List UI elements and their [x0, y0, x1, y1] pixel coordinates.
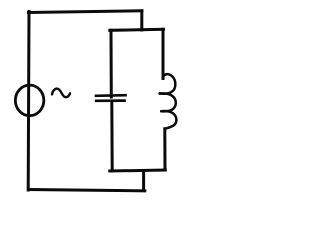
- wire: outer left vertical: [27, 12, 31, 191]
- wire: inductor top lead: [162, 29, 165, 78]
- inductor L1: [160, 74, 177, 129]
- wire: inner loop bottom horizontal: [110, 170, 166, 171]
- capacitor C1: [96, 95, 126, 101]
- wire: capacitor bottom lead: [110, 101, 113, 171]
- wire: bottom middle vertical drop: [142, 171, 145, 191]
- wire: outer bottom horizontal: [29, 190, 145, 191]
- wire: inductor bottom lead: [163, 129, 166, 170]
- ac source V1: [15, 85, 70, 116]
- wire: outer top horizontal: [29, 11, 143, 13]
- wire: capacitor top lead: [110, 30, 113, 97]
- wire: inner loop top horizontal: [110, 29, 164, 30]
- wire: top right vertical drop: [140, 11, 143, 30]
